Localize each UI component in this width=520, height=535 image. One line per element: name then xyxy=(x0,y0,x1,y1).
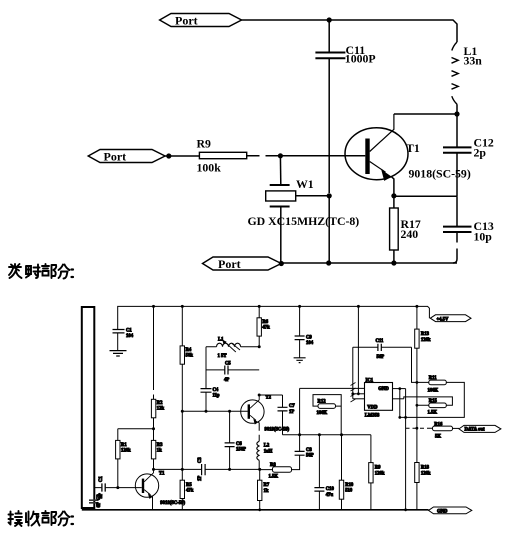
node H crystal bottom junction xyxy=(326,260,331,265)
resistor R17 xyxy=(390,208,399,250)
char 接 xyxy=(9,511,23,526)
svg-text:6P: 6P xyxy=(97,502,102,507)
pin tick marks xyxy=(351,383,356,403)
capacitor C3 xyxy=(202,464,206,475)
svg-text:1.5K: 1.5K xyxy=(428,411,438,416)
port GND xyxy=(429,507,472,514)
resistor R5 xyxy=(180,480,184,498)
wire VDD pin stub xyxy=(393,398,404,400)
wire C6 lower xyxy=(229,447,231,470)
wire R6 to tank junction xyxy=(258,336,260,347)
svg-text:9018(SC-59): 9018(SC-59) xyxy=(409,167,471,181)
resistor R10 xyxy=(339,480,343,499)
wire R16 to port xyxy=(453,427,460,429)
wire T2 base wire xyxy=(182,410,248,412)
svg-text:1uH: 1uH xyxy=(264,449,273,454)
svg-text:R4: R4 xyxy=(186,348,192,353)
colon xyxy=(72,270,74,278)
node R16 row junction xyxy=(416,427,419,430)
wire C11 rx row xyxy=(353,346,412,348)
wire C11 drop xyxy=(328,20,330,52)
svg-text:104: 104 xyxy=(126,334,134,339)
char 分 xyxy=(59,512,70,526)
capacitor C9 xyxy=(295,336,305,340)
svg-text:+4.5V: +4.5V xyxy=(437,317,450,322)
wire rx bottom rail xyxy=(82,509,429,511)
wire T1 collector xyxy=(370,114,394,152)
resistor R8 xyxy=(273,467,292,472)
node L2/R7/R8 junction xyxy=(258,468,261,471)
port P2 left xyxy=(88,150,165,163)
capacitor C2 antenna xyxy=(89,500,99,503)
wire R15 loop xyxy=(404,397,453,405)
wire R5 to rail xyxy=(181,499,183,510)
svg-text:R9: R9 xyxy=(375,465,381,470)
svg-text:C8: C8 xyxy=(306,448,312,453)
svg-text:C3: C3 xyxy=(198,457,203,463)
wire C13 lower with gap xyxy=(453,232,457,263)
svg-text:R8: R8 xyxy=(270,463,276,468)
inductor L1 xyxy=(452,42,459,104)
node stub junctions xyxy=(398,387,401,390)
svg-text:LM358: LM358 xyxy=(365,414,380,419)
char 收 xyxy=(26,512,40,526)
wire C7 lower xyxy=(282,411,284,435)
char 发 xyxy=(9,264,22,278)
svg-text:120k: 120k xyxy=(375,471,385,476)
resistor R4 xyxy=(180,346,184,364)
wire T1 rx emitter to rail xyxy=(152,497,154,510)
transistor T1 base bar xyxy=(365,139,369,175)
wire R9 branch xyxy=(370,435,372,463)
svg-text:12k: 12k xyxy=(157,407,165,412)
wire R7 top xyxy=(259,469,261,480)
resistor R3 xyxy=(151,440,155,459)
wire L1 bottom xyxy=(456,104,458,114)
node R11 loop junctions xyxy=(398,416,401,419)
svg-text:R1: R1 xyxy=(121,443,127,448)
svg-text:R6: R6 xyxy=(262,320,268,325)
svg-text:120k: 120k xyxy=(121,449,131,454)
wire tank mid xyxy=(206,369,259,371)
node T2 collector junction xyxy=(258,394,261,397)
node B crystal-right junction xyxy=(327,193,332,198)
svg-text:56P: 56P xyxy=(377,355,385,360)
wire 469 row xyxy=(154,468,273,470)
svg-text:1k: 1k xyxy=(264,489,269,494)
inductor L2 xyxy=(257,441,259,460)
svg-text:GD XC15MHZ(TC-8): GD XC15MHZ(TC-8) xyxy=(248,214,360,228)
node C6 top junction xyxy=(228,410,231,413)
resistor R2 rx xyxy=(151,399,155,418)
resistor R11 xyxy=(429,380,447,385)
resistor R12 loop xyxy=(313,395,341,435)
svg-text:C9: C9 xyxy=(306,336,312,341)
svg-text:R13: R13 xyxy=(421,332,430,337)
T1 rx base bar xyxy=(142,479,144,493)
wire C12 lower xyxy=(456,153,458,197)
capacitor C11 xyxy=(315,53,345,59)
svg-text:510: 510 xyxy=(345,489,353,494)
T2 base bar xyxy=(248,404,250,418)
node F emitter junction xyxy=(391,193,396,198)
wire R9 to base with gap xyxy=(247,155,280,157)
char 部 xyxy=(42,511,56,525)
svg-text:R9: R9 xyxy=(197,137,212,151)
IC box U1 xyxy=(365,383,393,411)
svg-text:R18: R18 xyxy=(421,465,430,470)
wire L2 bottom xyxy=(258,460,260,469)
ground G1 xyxy=(110,351,127,356)
wire collector node to C7 xyxy=(259,394,282,396)
svg-text:L2: L2 xyxy=(264,443,270,448)
wire C4 to base wire xyxy=(205,392,207,411)
svg-text:DATA out: DATA out xyxy=(465,428,485,433)
wire R1 bottom to base wire xyxy=(117,459,119,488)
svg-text:C1: C1 xyxy=(99,476,104,482)
node V2 jog junction xyxy=(152,427,155,430)
wire R10 bottom xyxy=(341,499,343,510)
wire R9 bottom xyxy=(370,483,372,510)
svg-text:C7: C7 xyxy=(289,404,295,409)
capacitor C1 coupling xyxy=(102,483,105,491)
wire R17 to rail xyxy=(393,250,395,263)
svg-text:R11: R11 xyxy=(429,376,437,381)
svg-text:47u: 47u xyxy=(326,493,334,498)
svg-text:1P: 1P xyxy=(289,410,294,415)
node R1/base junction xyxy=(116,486,119,489)
transistor T2 circle xyxy=(241,400,264,423)
svg-text:W1: W1 xyxy=(296,177,314,191)
svg-text:R16: R16 xyxy=(434,422,443,427)
resistor R13 xyxy=(415,329,419,348)
svg-text:R10: R10 xyxy=(345,483,354,488)
wire crystal top xyxy=(279,156,281,185)
section label 发射部分: (drawn strokes) xyxy=(9,264,73,279)
wire base wire T1 rx xyxy=(94,487,142,489)
svg-text:104: 104 xyxy=(306,341,314,346)
wire top rail xyxy=(242,20,457,42)
svg-text:C4: C4 xyxy=(213,388,219,393)
svg-text:240: 240 xyxy=(401,227,419,241)
wire C6 upper xyxy=(229,411,231,442)
wire crystal bottom xyxy=(280,207,282,263)
capacitor C4 xyxy=(201,389,212,393)
wire to R17 xyxy=(393,196,395,208)
node 434 junctions xyxy=(298,433,301,436)
svg-text:9018(SC-59): 9018(SC-59) xyxy=(265,427,290,432)
section label 接收部分: (drawn strokes) xyxy=(9,511,74,526)
wire C8 upper xyxy=(299,435,301,452)
capacitor C8 xyxy=(295,451,305,455)
wire C10 bottom xyxy=(318,491,320,510)
capacitor C10 xyxy=(314,488,324,492)
svg-text:9018(SC-59): 9018(SC-59) xyxy=(160,501,185,506)
wire T2 emitter diag xyxy=(250,415,256,420)
wire GND pin stub xyxy=(393,388,406,390)
wire R3 to collector node xyxy=(153,459,155,470)
wire C9 to ground xyxy=(299,340,301,358)
wire bottom rail xyxy=(281,262,457,264)
node I port3 junction xyxy=(279,261,284,266)
T2 emitter arrow xyxy=(253,419,258,425)
wire T2 emitter down with dash xyxy=(258,422,259,442)
wire emitter down xyxy=(391,176,394,196)
svg-text:10p: 10p xyxy=(474,230,493,244)
L1 rx adjust arrow xyxy=(224,341,240,352)
capacitor C12 xyxy=(443,147,472,152)
svg-text:1k: 1k xyxy=(157,449,162,454)
node V3 base wire junction xyxy=(181,410,184,413)
svg-text:Port: Port xyxy=(175,14,198,28)
svg-text:100k: 100k xyxy=(197,161,222,175)
svg-text:R12: R12 xyxy=(318,399,327,404)
svg-text:L1: L1 xyxy=(218,338,224,343)
svg-text:1P: 1P xyxy=(198,476,203,481)
crystal W1 top plate xyxy=(270,184,290,186)
wire V2 upper xyxy=(153,306,155,399)
svg-text:T1: T1 xyxy=(159,471,165,476)
wire C11 line to bottom rail xyxy=(328,196,330,263)
svg-text:C10: C10 xyxy=(326,487,335,492)
wire C9 branch xyxy=(299,306,301,336)
svg-text:5K: 5K xyxy=(435,434,441,439)
svg-text:2p: 2p xyxy=(474,146,487,160)
svg-text:GND: GND xyxy=(378,387,389,392)
capacitor C7 xyxy=(278,407,288,411)
svg-text:T2: T2 xyxy=(266,396,272,401)
wire V3 mid xyxy=(181,364,183,480)
resistor R15 xyxy=(429,403,447,408)
svg-text:47k: 47k xyxy=(186,489,194,494)
inductor L1 rx xyxy=(217,343,241,347)
node D port2 junction xyxy=(166,153,171,158)
T1 emitter arrow xyxy=(381,170,392,181)
svg-text:150P: 150P xyxy=(236,448,246,453)
svg-text:C11: C11 xyxy=(376,339,384,344)
capacitor C5 xyxy=(225,366,228,375)
resistor R6 xyxy=(257,318,261,336)
wire R16 row dashed xyxy=(406,427,433,429)
resistor R1 rx xyxy=(116,440,120,459)
wire tank left vertical xyxy=(205,347,207,389)
wire emitter node to C12 line xyxy=(394,195,457,197)
wire base xyxy=(280,155,365,157)
node pin feed junctions xyxy=(351,392,354,395)
wire C13 upper xyxy=(456,196,458,226)
wire R18 bottom xyxy=(416,483,418,510)
wire VA vertical xyxy=(416,306,418,462)
wire left IC feed corner xyxy=(300,388,365,434)
svg-text:Port: Port xyxy=(104,150,127,164)
wire R10 branch xyxy=(341,435,343,480)
ground G2 xyxy=(294,358,306,363)
resistor R9 rx xyxy=(369,463,373,483)
wire R7 bottom xyxy=(259,501,261,510)
wire IC pin3 xyxy=(353,398,365,400)
node rail bottom junctions xyxy=(258,508,261,511)
svg-text:R15: R15 xyxy=(429,399,438,404)
svg-text:R3: R3 xyxy=(157,443,163,448)
svg-text:VDD: VDD xyxy=(367,405,378,410)
wire C11 to cross down xyxy=(328,58,330,193)
capacitor C13 xyxy=(443,227,472,232)
crystal W1 body xyxy=(266,191,296,201)
capacitor C1 rx xyxy=(113,330,125,333)
T1 rx emitter arrow xyxy=(148,493,153,499)
wire V4 upper xyxy=(258,306,260,317)
resistor R9 xyxy=(199,152,246,158)
char 部 xyxy=(42,264,56,278)
port P3 bottom xyxy=(203,257,282,270)
svg-text:100K: 100K xyxy=(428,388,439,393)
svg-text:120k: 120k xyxy=(421,338,431,343)
node A junction C11 top xyxy=(327,17,332,22)
svg-text:4P: 4P xyxy=(224,378,229,383)
resistor R16 xyxy=(433,426,453,431)
node tank top-right junction xyxy=(258,345,261,348)
svg-text:C5: C5 xyxy=(225,361,231,366)
svg-text:1 5T: 1 5T xyxy=(218,354,228,359)
svg-text:IC1: IC1 xyxy=(366,378,374,383)
svg-text:C1: C1 xyxy=(126,329,132,334)
svg-text:100K: 100K xyxy=(317,411,328,416)
wire C1 to ground xyxy=(117,333,119,351)
wire T2 collector diag xyxy=(250,395,259,408)
wire C10 branch xyxy=(318,435,320,488)
svg-text:50k: 50k xyxy=(186,354,194,359)
capacitor C11 rx xyxy=(378,344,381,351)
port +4.5V xyxy=(430,315,471,322)
wire T1 rx emitter diag xyxy=(144,490,150,495)
svg-text:C6: C6 xyxy=(236,442,242,447)
svg-text:1.5K: 1.5K xyxy=(269,475,279,480)
wire C11 left drop xyxy=(352,347,354,399)
node E base junction xyxy=(278,153,283,158)
wire 399.8 drop xyxy=(399,389,401,418)
svg-text:56P: 56P xyxy=(306,454,314,459)
svg-text:33n: 33n xyxy=(464,54,483,68)
svg-text:47k: 47k xyxy=(262,326,270,331)
wire R8 right to C8 xyxy=(292,455,300,469)
node rail junctions xyxy=(152,305,155,308)
svg-text:120k: 120k xyxy=(421,471,431,476)
wire VB vertical xyxy=(405,389,407,510)
node V3 469 junction xyxy=(181,468,184,471)
resistor R7 xyxy=(258,480,262,500)
node G R17 bottom junction xyxy=(391,260,396,265)
char 分 xyxy=(59,265,70,279)
svg-text:R7: R7 xyxy=(264,483,270,488)
wire IC pin2 xyxy=(353,393,365,395)
node R15 left junction xyxy=(416,404,419,407)
svg-text:Port: Port xyxy=(218,257,241,271)
svg-text:C2: C2 xyxy=(97,494,102,500)
svg-text:GND: GND xyxy=(437,510,448,515)
node C4/base junction xyxy=(205,410,208,413)
svg-text:R5: R5 xyxy=(186,483,192,488)
svg-text:T1: T1 xyxy=(406,141,420,155)
node C6 bottom junction xyxy=(228,468,231,471)
svg-text:11p: 11p xyxy=(213,394,220,399)
wire C12 upper xyxy=(456,114,458,147)
wire T1 rx collector diag xyxy=(144,469,153,481)
port P1 top xyxy=(160,14,242,27)
wire jog to R1 xyxy=(118,428,154,430)
crystal W1 bottom plate xyxy=(270,206,290,208)
port DATA out xyxy=(459,425,501,432)
capacitor C6 xyxy=(225,443,235,447)
node T1rx collector junction xyxy=(152,468,155,471)
node C L1/C12/collector junction xyxy=(454,111,459,116)
wire V2 mid xyxy=(153,418,155,441)
transistor T1 rx circle xyxy=(135,474,158,497)
wire V6 rail to pin row xyxy=(357,306,359,393)
svg-text:1000P: 1000P xyxy=(345,52,376,66)
transistor T1 circle xyxy=(345,128,408,180)
wire C11 right corner to VA xyxy=(412,347,417,382)
wire collector rail xyxy=(394,113,457,115)
wire rx top rail xyxy=(118,306,430,329)
wire 434 row xyxy=(283,434,371,436)
svg-text:R2: R2 xyxy=(157,401,163,406)
resistor R12 body xyxy=(318,404,336,409)
wire R11 row xyxy=(400,382,465,417)
wire C7 upper xyxy=(282,395,284,407)
char 射 xyxy=(26,265,41,279)
wire port2 to R9 xyxy=(165,155,199,157)
wire V3 upper xyxy=(181,306,183,346)
colon xyxy=(72,517,74,525)
resistor R18 xyxy=(415,463,419,483)
antenna xyxy=(82,307,95,508)
wire R1 top lead xyxy=(117,429,119,441)
wire T1 emitter xyxy=(370,162,386,173)
wire crystal right to node B xyxy=(296,195,330,197)
wire tank top xyxy=(206,346,259,348)
